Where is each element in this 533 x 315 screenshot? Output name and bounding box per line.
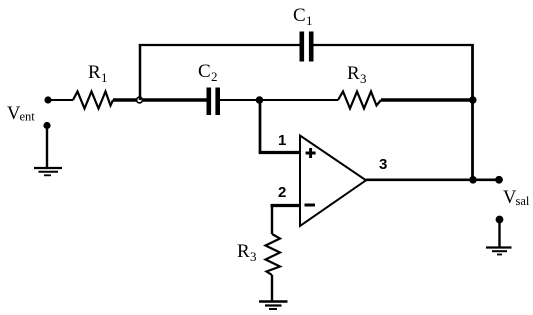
wire top rail left of C1 [139, 44, 300, 46]
ground under R3 [259, 302, 288, 310]
svg-text:3: 3 [250, 249, 257, 264]
svg-text:R: R [237, 241, 250, 262]
label Vsal [503, 188, 530, 208]
wire R1 to node A [113, 98, 136, 101]
resistor R3 to ground [237, 234, 280, 275]
node Vsal terminal [495, 176, 503, 184]
label Vent [7, 104, 35, 124]
ground under Vsal [486, 248, 512, 255]
wire R3 to right bus junction [381, 98, 472, 101]
svg-text:1: 1 [306, 13, 313, 28]
svg-text:C: C [293, 5, 306, 26]
wire pin 2 down to R3 [271, 204, 273, 234]
svg-text:3: 3 [379, 156, 387, 173]
wire Vent ground stem [46, 127, 48, 168]
wire C2 to node B [220, 99, 257, 101]
op-amp plus input mark [306, 148, 316, 158]
svg-text:C: C [198, 61, 211, 82]
svg-text:1: 1 [278, 132, 286, 149]
wire output pin 3 [366, 179, 496, 182]
resistor R1 [73, 62, 113, 109]
svg-text:1: 1 [101, 70, 108, 85]
wire node A up to top rail [139, 44, 142, 100]
node ground terminal under Vent [43, 122, 50, 129]
wire pin 1 input [259, 151, 300, 154]
wire node B down to pin 1 [259, 100, 262, 154]
svg-text:2: 2 [278, 184, 286, 201]
op-amp U1 [300, 136, 366, 227]
node B junction [256, 96, 264, 104]
wire Vsal ground stem [498, 221, 500, 247]
junction output / right bus [469, 176, 477, 184]
junction right bus / R3 [469, 96, 477, 104]
ground under Vent [34, 168, 62, 175]
resistor R3 feedback [338, 63, 381, 109]
svg-text:sal: sal [516, 194, 530, 208]
op-amp minus input mark [305, 204, 316, 207]
wire right bus down to output [471, 44, 474, 180]
svg-text:R: R [347, 63, 360, 84]
capacitor C1 [293, 5, 314, 62]
wire pin 2 input [271, 204, 301, 207]
node A (open junction) [137, 97, 143, 103]
svg-text:2: 2 [211, 69, 218, 84]
node Vent terminal [44, 96, 51, 103]
wire top rail right of C1 [314, 44, 474, 46]
wire node B to R3 [262, 99, 338, 101]
node ground terminal under Vsal [496, 216, 504, 224]
wire Vent to R1 [51, 99, 73, 101]
svg-text:ent: ent [20, 110, 36, 124]
wire node A to C2 [143, 98, 207, 101]
capacitor C2 [198, 61, 220, 115]
svg-text:3: 3 [360, 71, 367, 86]
svg-text:R: R [88, 62, 101, 83]
wire R3 to ground [271, 275, 273, 301]
